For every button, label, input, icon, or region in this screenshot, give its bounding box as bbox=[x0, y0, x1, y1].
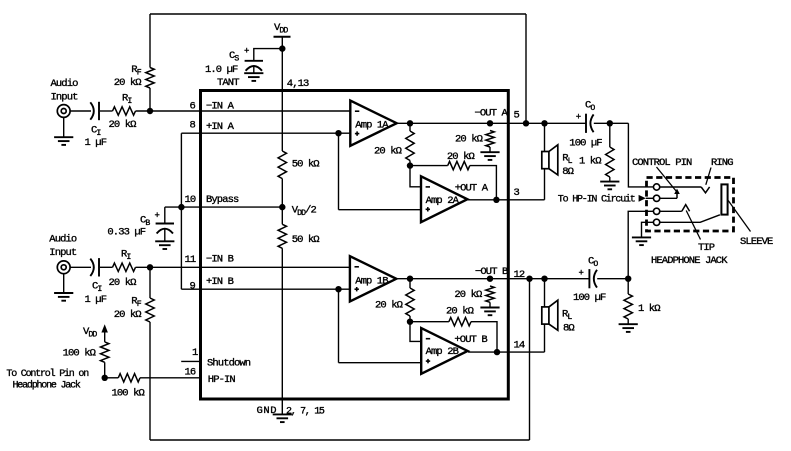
wire RI_A to pin6 -IN A bbox=[136, 110, 351, 112]
wire J1 to CI_A bbox=[70, 110, 91, 112]
node VDD/2 bbox=[279, 204, 285, 210]
svg-text:Headphone Jack: Headphone Jack bbox=[13, 380, 81, 392]
svg-text:Input: Input bbox=[51, 92, 79, 104]
capacitor CB 0.33uF bbox=[156, 224, 174, 234]
svg-text:To Control Pin on: To Control Pin on bbox=[6, 368, 89, 380]
svg-text:50 kΩ: 50 kΩ bbox=[292, 234, 320, 246]
wire sleeve contact to ground bbox=[642, 222, 654, 237]
node A input junction bbox=[147, 108, 153, 114]
wire control arm bbox=[660, 197, 677, 199]
wire +IN column (pin8 to pin9) bbox=[180, 133, 182, 289]
wire 100k to pin16 HP-IN bbox=[140, 377, 201, 379]
svg-text:8Ω: 8Ω bbox=[563, 323, 574, 335]
svg-text:20 kΩ: 20 kΩ bbox=[446, 306, 474, 318]
wire node to Amp2B - input bbox=[410, 322, 421, 342]
wire pin9 +IN B bbox=[181, 288, 350, 290]
capacitor CI (channel A) bbox=[90, 102, 99, 120]
resistor 20k series B2 feedback bbox=[449, 318, 471, 326]
svg-text:HP-IN: HP-IN bbox=[208, 374, 236, 386]
wire speaker A top bbox=[544, 123, 546, 151]
arrow to control contact bbox=[639, 195, 646, 202]
resistor RF (channel A) 20k feedback bbox=[146, 68, 154, 89]
wire fbA to node bbox=[409, 161, 411, 166]
wire Amp2A output (+OUT A, pin 3) bbox=[468, 199, 545, 201]
resistor 1k A bbox=[606, 147, 614, 177]
wire 1k B top lead bbox=[627, 279, 629, 294]
VDD arrow (pull-up) bbox=[104, 332, 106, 342]
svg-text:Input: Input bbox=[49, 247, 77, 259]
wire feedback rail down to -OUT A bbox=[525, 14, 527, 123]
wire pin8 +IN A bbox=[181, 132, 350, 134]
svg-text:16: 16 bbox=[185, 367, 196, 379]
svg-text:TANT: TANT bbox=[217, 77, 239, 89]
wire RI_B to pin11 -IN B bbox=[136, 266, 351, 268]
wire J2 to ground bbox=[63, 274, 65, 293]
svg-text:−IN A: −IN A bbox=[206, 100, 235, 112]
resistor RI (channel B) 20k bbox=[113, 263, 136, 271]
wire CB to ground bbox=[164, 229, 166, 242]
wire RF_A bottom lead bbox=[149, 88, 151, 111]
svg-text:+: + bbox=[576, 113, 581, 123]
node bypass tap bbox=[178, 204, 184, 210]
ground (CB) bbox=[155, 241, 174, 249]
wire 1k A bottom lead bbox=[609, 177, 611, 182]
wire to Amp2B + input bbox=[339, 362, 422, 364]
resistor 20k series A2 feedback bbox=[448, 161, 470, 169]
wire node to series 20k B bbox=[410, 321, 449, 323]
svg-text:Amp 2A: Amp 2A bbox=[426, 195, 460, 207]
wire CS to ground bbox=[253, 66, 255, 73]
svg-text:Audio: Audio bbox=[51, 78, 79, 90]
wire speaker B bottom bbox=[544, 324, 546, 352]
wire 20k gnd A lead bbox=[489, 147, 491, 152]
wire CI_A to RI_A bbox=[100, 110, 113, 112]
wire shutdown pin1 stub bbox=[181, 360, 200, 362]
svg-text:20 kΩ: 20 kΩ bbox=[447, 151, 475, 163]
wire Amp1A output (-OUT A, pin 5) bbox=[397, 122, 586, 124]
wire top feedback rail bbox=[150, 13, 526, 15]
svg-text:−IN B: −IN B bbox=[206, 254, 234, 266]
svg-text:6: 6 bbox=[190, 100, 196, 112]
wire tip arm bbox=[660, 210, 682, 212]
node Amp2A out bbox=[493, 197, 499, 203]
svg-text:+: + bbox=[155, 211, 160, 221]
resistor 20k to ground B bbox=[486, 286, 494, 302]
wire CO B to node bbox=[597, 278, 628, 280]
svg-text:9: 9 bbox=[190, 281, 196, 293]
svg-text:HEADPHONE JACK: HEADPHONE JACK bbox=[651, 255, 728, 267]
resistor RF (channel B) 20k feedback bbox=[146, 298, 154, 322]
wire VDD down pins 4,13 bbox=[281, 37, 283, 151]
svg-text:100 kΩ: 100 kΩ bbox=[112, 388, 145, 400]
svg-text:20 kΩ: 20 kΩ bbox=[114, 77, 142, 89]
callout line control pin bbox=[657, 167, 677, 192]
svg-text:20 kΩ: 20 kΩ bbox=[114, 309, 142, 321]
svg-text:20 kΩ: 20 kΩ bbox=[455, 134, 483, 146]
resistor 100k series (HP-IN) bbox=[118, 374, 140, 382]
resistor 20k feedback A1 bbox=[406, 131, 414, 161]
jack contact tip (circle) bbox=[653, 208, 659, 214]
wire bottom feedback rail bbox=[150, 439, 530, 441]
callout line sleeve bbox=[728, 201, 750, 232]
wire Amp1B output (-OUT B, pin 12) bbox=[397, 278, 589, 280]
ground (input B) bbox=[54, 293, 73, 301]
node pin12 feedback corner bbox=[526, 276, 532, 282]
svg-text:11: 11 bbox=[185, 254, 196, 266]
svg-text:+OUT A: +OUT A bbox=[455, 183, 489, 195]
wire fbB lead bbox=[409, 279, 411, 288]
svg-text:+IN A: +IN A bbox=[206, 121, 235, 133]
svg-text:5: 5 bbox=[514, 110, 520, 122]
wire series 20k B to Amp2B output bbox=[471, 322, 497, 352]
wire J1 to ground bbox=[63, 117, 65, 137]
RCA jack J2 (audio input B) bbox=[57, 261, 70, 274]
wire +IN A split down bbox=[338, 133, 340, 210]
plug sleeve body bbox=[721, 184, 727, 214]
resistor 50k upper divider bbox=[278, 151, 286, 179]
wire CS tap bbox=[254, 49, 282, 61]
node 20k-gnd B tap bbox=[487, 276, 493, 282]
svg-text:1 µF: 1 µF bbox=[85, 294, 107, 306]
svg-text:Shutdown: Shutdown bbox=[207, 358, 251, 370]
svg-text:8Ω: 8Ω bbox=[562, 166, 573, 178]
wire RF_A top lead bbox=[149, 14, 151, 68]
svg-text:+: + bbox=[579, 269, 584, 279]
svg-text:3: 3 bbox=[514, 187, 520, 199]
wire divider to GND pins bbox=[281, 248, 283, 414]
node fbB junction bbox=[407, 319, 413, 325]
ground (input A) bbox=[54, 137, 73, 145]
node CO B output bbox=[625, 276, 631, 282]
node fbA junction bbox=[407, 162, 413, 168]
IC package outline U1 (boomer amplifier) bbox=[201, 91, 509, 400]
wire CO A to node bbox=[594, 122, 629, 124]
svg-text:20 kΩ: 20 kΩ bbox=[375, 300, 403, 312]
capacitor CI (channel B) bbox=[90, 258, 99, 276]
node Amp1A out bbox=[407, 120, 413, 126]
svg-text:+OUT B: +OUT B bbox=[454, 334, 487, 346]
control pin lift arrow bbox=[676, 194, 678, 199]
svg-text:1.0 µF: 1.0 µF bbox=[205, 64, 238, 76]
svg-text:10: 10 bbox=[185, 194, 196, 206]
callout line ring bbox=[706, 168, 711, 185]
node +IN A split bbox=[335, 130, 341, 136]
wire sleeve arm bbox=[660, 215, 720, 223]
node Amp2B out bbox=[494, 349, 500, 355]
wire J2 to CI_B bbox=[70, 266, 91, 268]
svg-text:20 kΩ: 20 kΩ bbox=[109, 277, 137, 289]
svg-text:100 kΩ: 100 kΩ bbox=[63, 348, 96, 360]
ground (20k B) bbox=[480, 308, 499, 316]
node speaker B tap bbox=[541, 276, 547, 282]
svg-text:14: 14 bbox=[514, 340, 525, 352]
wire fbA lead bbox=[409, 123, 411, 131]
ground (CS) bbox=[244, 73, 263, 81]
resistor 20k to ground A bbox=[486, 131, 494, 148]
wire 1k A top lead bbox=[609, 123, 611, 147]
wire node to series 20k A bbox=[410, 165, 448, 167]
svg-text:Amp 2B: Amp 2B bbox=[426, 346, 459, 358]
wire Amp2B output (+OUT B, pin 14) bbox=[468, 351, 544, 353]
wire bypass elbow down to CB bbox=[164, 207, 166, 223]
wire ring arm bbox=[660, 186, 701, 188]
svg-text:+: + bbox=[244, 47, 249, 57]
node CO A output bbox=[607, 120, 613, 126]
resistor 1k B bbox=[624, 294, 632, 319]
wire pull-up to node bbox=[104, 362, 106, 378]
wire to ring contact bbox=[628, 123, 653, 187]
op-amp Amp 2B bbox=[421, 328, 467, 374]
node HP-IN junction bbox=[102, 375, 108, 381]
svg-text:20 kΩ: 20 kΩ bbox=[374, 146, 402, 158]
svg-text:1: 1 bbox=[192, 347, 198, 359]
node 20k-gnd A tap bbox=[487, 120, 493, 126]
node CS tap bbox=[279, 45, 285, 51]
wire RF_B bottom lead bbox=[149, 322, 151, 440]
node Amp1B out bbox=[407, 276, 413, 282]
wire bypass pin10 bbox=[165, 206, 282, 208]
wire feedback rail up to -OUT B bbox=[529, 279, 531, 440]
svg-text:1 µF: 1 µF bbox=[85, 137, 107, 149]
svg-text:+IN B: +IN B bbox=[206, 276, 234, 288]
capacitor CO (channel B) 100uF bbox=[589, 269, 597, 288]
svg-text:50 kΩ: 50 kΩ bbox=[292, 159, 320, 171]
resistor RI (channel A) 20k bbox=[113, 107, 136, 115]
svg-text:0.33 µF: 0.33 µF bbox=[107, 227, 145, 239]
VDD rail symbol bbox=[274, 36, 291, 38]
node speaker A tap bbox=[541, 120, 547, 126]
wire node to Amp2A - input bbox=[410, 166, 421, 187]
RCA jack J1 (audio input A) bbox=[57, 105, 70, 118]
capacitor CS 1.0uF tantalum bbox=[245, 61, 263, 71]
ground (1k A) bbox=[600, 182, 619, 190]
ground (jack sleeve) bbox=[632, 237, 651, 245]
wire RF_B top lead bbox=[149, 267, 151, 298]
resistor 20k feedback B1 bbox=[406, 288, 414, 316]
op-amp Amp 1A bbox=[350, 101, 396, 146]
tip spring contact bbox=[682, 205, 690, 212]
wire to Amp2A + input bbox=[339, 209, 422, 211]
wire speaker B top bbox=[544, 279, 546, 307]
svg-text:100 µF: 100 µF bbox=[573, 292, 606, 304]
svg-text:To HP-IN Circuit: To HP-IN Circuit bbox=[558, 194, 635, 206]
node pin5 feedback corner bbox=[523, 120, 529, 126]
svg-text:1 kΩ: 1 kΩ bbox=[638, 303, 660, 315]
wire 20k gnd B lead bbox=[489, 302, 491, 307]
wire 1k B bottom lead bbox=[627, 319, 629, 324]
wire to tip contact bbox=[628, 211, 653, 278]
node +IN B split bbox=[335, 286, 341, 292]
svg-text:TIP: TIP bbox=[698, 242, 715, 254]
svg-text:2, 7, 15: 2, 7, 15 bbox=[286, 407, 325, 418]
svg-text:Amp 1A: Amp 1A bbox=[355, 120, 389, 132]
svg-text:100 µF: 100 µF bbox=[569, 138, 602, 150]
resistor 100k pull-up bbox=[101, 342, 109, 362]
svg-text:RING: RING bbox=[711, 157, 733, 169]
ground (IC GND) bbox=[273, 414, 292, 422]
op-amp Amp 2A bbox=[421, 176, 467, 222]
svg-text:−OUT A: −OUT A bbox=[475, 108, 509, 120]
ground (1k B) bbox=[619, 324, 638, 332]
node B input junction bbox=[147, 264, 153, 270]
svg-text:CONTROL PIN: CONTROL PIN bbox=[632, 157, 692, 169]
wire divider middle bbox=[281, 179, 283, 225]
svg-text:20 kΩ: 20 kΩ bbox=[109, 119, 137, 131]
svg-text:Audio: Audio bbox=[49, 234, 77, 246]
svg-text:20 kΩ: 20 kΩ bbox=[454, 289, 482, 301]
speaker RL A 8ohm bbox=[542, 145, 558, 175]
ring spring contact bbox=[701, 187, 709, 193]
jack contact control (circle) bbox=[653, 195, 659, 201]
svg-text:Amp 1B: Amp 1B bbox=[355, 276, 388, 288]
svg-text:8: 8 bbox=[190, 119, 196, 131]
callout line tip bbox=[686, 211, 700, 240]
wire series 20k A to Amp2A output bbox=[470, 166, 497, 200]
wire speaker A bottom bbox=[544, 169, 546, 200]
headphone jack dashed outline bbox=[647, 178, 734, 232]
jack contact sleeve (circle) bbox=[653, 219, 659, 225]
resistor 50k lower divider bbox=[278, 224, 286, 248]
wire +IN B split down bbox=[338, 289, 340, 363]
svg-text:4,13: 4,13 bbox=[287, 78, 309, 90]
svg-text:SLEEVE: SLEEVE bbox=[740, 236, 773, 248]
svg-text:1 kΩ: 1 kΩ bbox=[579, 156, 601, 168]
wire node to 100k series bbox=[105, 377, 119, 379]
op-amp Amp 1B bbox=[350, 256, 396, 301]
capacitor CO (channel A) 100uF bbox=[586, 114, 594, 133]
wire fbB to node bbox=[409, 316, 411, 322]
wire CI_B to RI_B bbox=[100, 266, 113, 268]
svg-text:Bypass: Bypass bbox=[206, 194, 239, 206]
ground (20k A) bbox=[480, 152, 499, 160]
speaker RL B 8ohm bbox=[542, 300, 558, 330]
jack contact ring (circle) bbox=[653, 184, 659, 190]
